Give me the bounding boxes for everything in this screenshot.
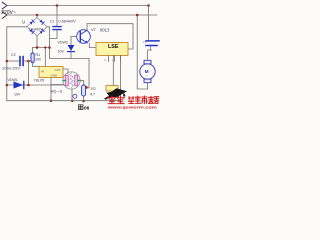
wire: bridge bottom corner down to DC bus [36,36,38,48]
svg-text:VT: VT [91,27,97,32]
wire: motor M1 right lead to R2 top [80,81,84,86]
wire: bridge right corner down to DC bus [47,27,50,48]
svg-text:VDW1: VDW1 [8,78,18,82]
wire: C2 node down to zener line [27,61,29,85]
wire: LSE pin to potentiometer left [112,56,114,86]
svg-text:C2: C2 [11,53,16,57]
node: bridge bottom on bus [36,46,39,49]
transistor VT base bar [79,32,81,41]
node: GND on bottom rail [50,99,53,102]
zener diode VDW1 [14,81,24,88]
watermark red bug glyphs [108,96,125,104]
resistor R1 body [31,53,34,63]
node: C2 left on rail [6,60,9,63]
caption 图 06 [78,105,83,110]
motor M1 left brush [65,75,68,86]
svg-text:R1: R1 [36,53,41,57]
motor M1 armature zigzag [70,73,73,88]
wire: bus down to 78L05 top [44,48,46,67]
wire: C2 left lead [7,60,19,62]
node: VDW1 right junction [27,84,30,87]
wire: bus branch down and right to emitter resistor line [50,48,90,59]
wire: AC rail 1 (top, y=5.5) [7,5,149,7]
node: VDW1 left on rail [6,84,9,87]
wire: transistor base to zener VDW2 [71,37,77,45]
wire: 78L05 OUT right then down to motor [63,69,68,74]
node: loop junction on rail2 [136,14,139,17]
LSE bottom pin stubs [109,56,121,62]
svg-text:U: U [22,20,25,25]
node: bridge top to rail 2 junction [36,14,39,17]
watermark red CJK text blocks [128,96,158,104]
bridge rectifier U 1A/400V: diamond outline [27,18,47,37]
node: C1 branch on bus [48,46,51,49]
svg-text:R2: R2 [91,87,96,91]
node: R2 bottom on rail [82,100,85,103]
wire: bottom rail [7,100,121,102]
svg-text:100: 100 [35,58,41,62]
svg-text:IN: IN [41,70,44,74]
wire: zener line y=87 [7,84,64,86]
wire: DC bus horizontal y=47.5 [33,47,50,49]
node: motor M1 bottom on rail [71,100,74,103]
voltage regulator 78L05 box [39,67,63,78]
svg-text:~: ~ [146,74,148,78]
svg-text:100u/25V: 100u/25V [2,66,20,70]
motor M2 bottom terminal [144,79,151,83]
transistor VT emitter stroke with arrow [80,39,87,43]
node: R2 top junction with emitter line [85,86,88,89]
capacitor C1 plates [53,27,61,30]
wire: R1 bottom to 78L05 IN [33,63,40,67]
svg-text:GND: GND [51,73,59,77]
node: C2 right junction [27,60,30,63]
transistor VT collector stroke [80,30,87,34]
wire: 78L05 GND down to bottom rail [50,78,52,101]
diode D2 of bridge (upper-right edge) [39,19,44,24]
wire: VDW2 bottom to emitter line [70,52,72,58]
watermark logo (black cap) [109,88,128,98]
wire: bus left end down to R1 top [32,48,34,54]
svg-text:MQ—8: MQ—8 [51,90,62,94]
wire: emitter line vertical x=89 down to R2 [86,59,89,88]
wire: bridge top corner to rail2 [36,15,38,18]
capacitor C2 plates (polarized) [19,57,21,66]
motor M1 (shaver motor) circle [63,72,80,89]
wire: LSE pin down right side of potentiometer [119,56,121,98]
svg-text:www.qeworm.com: www.qeworm.com [106,105,157,109]
svg-text:10V: 10V [58,50,65,54]
motor M1 left lead (green) [63,80,65,82]
transistor VT circle [77,30,91,44]
svg-text:10V: 10V [14,92,21,96]
motor M2 top terminal [144,60,151,64]
node: regulator feed junction on bus [44,46,46,48]
diode D1 of bridge (upper-left edge) [29,20,34,25]
AC plug prong top [2,2,7,9]
diode D4 of bridge (lower-right edge) [39,29,44,34]
wire: AC rail 2 (y=15) [7,14,157,16]
wire: motor M1 left lead to GND vertical [51,84,63,86]
zener diode VDW2 [68,45,75,51]
svg-text:4.7: 4.7 [90,92,95,96]
potentiometer RP box [106,86,118,92]
motor M1 right brush [75,75,78,86]
svg-text:0.68/400V: 0.68/400V [59,19,77,23]
svg-text:06: 06 [84,106,90,110]
node: right branch top on rail1 [147,4,150,7]
IC LSE control box [96,43,128,56]
diode D3 of bridge (lower-left edge) [29,29,34,34]
wire: bridge left corner to left rail [7,26,27,28]
wire: motor M1 bottom to rail [71,89,73,101]
wire: R2 bottom to rail [83,96,85,101]
wire: collector up and right to LSE right pin [87,24,133,49]
svg-text:VDW2: VDW2 [58,41,68,45]
wire: C1 bottom jog to vertical [50,30,58,38]
motor M2 circle [140,64,155,79]
wire: C2 right lead to node [24,60,33,62]
svg-text:m: m [104,59,106,62]
wire: rail1 down to C3 [148,6,150,41]
svg-text:1A/400V: 1A/400V [29,27,44,31]
motor M1 right lead (green) [78,80,80,82]
wire: emitter down right into LSE left pin [89,44,96,48]
resistor R2 body [82,85,86,96]
node: C1 tap on rail 1 [56,4,59,7]
wire: rail1 down to C1 [56,6,58,27]
wire: left rail vertical [6,27,8,101]
wire: C3 bottom to motor M2 top [148,46,151,60]
AC plug prong bottom [2,12,7,19]
capacitor C3 plates [146,41,159,46]
svg-text:OUT: OUT [55,68,62,72]
svg-text:LSE: LSE [108,44,119,50]
svg-text:9013: 9013 [100,28,110,33]
connector circlet on motor M1 bottom lead [73,94,77,98]
svg-text:78L05: 78L05 [34,79,45,83]
wire: motor M2 bottom loop left and up to rail2 [137,15,147,89]
svg-text:C1: C1 [50,20,55,24]
